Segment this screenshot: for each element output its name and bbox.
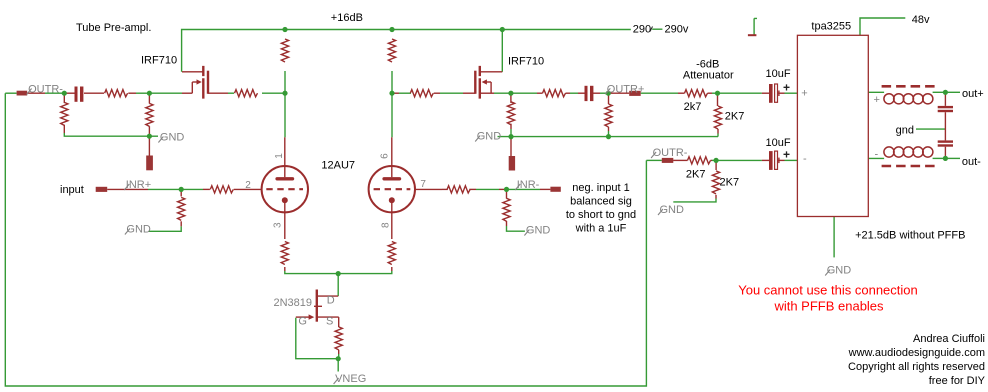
- svg-text:out+: out+: [962, 88, 984, 100]
- svg-text:IRF710: IRF710: [508, 56, 544, 68]
- svg-text:tpa3255: tpa3255: [811, 21, 851, 33]
- svg-text:+: +: [801, 87, 807, 99]
- svg-text:12AU7: 12AU7: [321, 160, 355, 172]
- svg-text:OUTR-: OUTR-: [653, 147, 688, 159]
- svg-text:out-: out-: [962, 156, 981, 168]
- svg-text:+21.5dB without PFFB: +21.5dB without PFFB: [855, 230, 965, 242]
- svg-text:IRF710: IRF710: [141, 55, 177, 67]
- svg-text:neg. input 1: neg. input 1: [572, 182, 630, 194]
- svg-text:2k7: 2k7: [684, 101, 702, 113]
- svg-text:8: 8: [381, 222, 392, 228]
- svg-text:GND: GND: [126, 224, 150, 236]
- svg-text:You cannot use this connection: You cannot use this connection: [738, 283, 918, 298]
- svg-text:GND: GND: [477, 131, 502, 143]
- svg-text:7: 7: [420, 179, 426, 190]
- svg-text:-: -: [803, 153, 807, 165]
- svg-text:290: 290: [633, 24, 651, 36]
- svg-text:with PFFB enables: with PFFB enables: [773, 299, 884, 314]
- svg-text:-6dB: -6dB: [696, 58, 719, 70]
- svg-text:290v: 290v: [665, 24, 689, 36]
- svg-text:2K7: 2K7: [686, 169, 706, 181]
- svg-text:3: 3: [273, 222, 284, 228]
- svg-text:OUTR-: OUTR-: [28, 84, 63, 96]
- svg-text:to short to gnd: to short to gnd: [566, 209, 636, 221]
- svg-text:+: +: [783, 148, 790, 162]
- svg-text:48v: 48v: [912, 14, 930, 26]
- svg-text:GND: GND: [160, 132, 185, 144]
- svg-text:www.audiodesignguide.com: www.audiodesignguide.com: [848, 347, 985, 359]
- svg-text:Andrea Ciuffoli: Andrea Ciuffoli: [913, 333, 985, 345]
- svg-text:OUTR+: OUTR+: [607, 83, 645, 95]
- svg-text:INR-: INR-: [517, 179, 540, 191]
- svg-text:Attenuator: Attenuator: [683, 70, 734, 82]
- svg-text:2K7: 2K7: [720, 177, 740, 189]
- svg-text:GND: GND: [526, 225, 551, 237]
- svg-text:2: 2: [245, 180, 251, 191]
- svg-text:input: input: [60, 184, 84, 196]
- svg-text:S: S: [326, 316, 333, 328]
- svg-text:balanced sig: balanced sig: [570, 196, 632, 208]
- svg-text:2N3819: 2N3819: [274, 297, 313, 309]
- svg-text:GND: GND: [827, 265, 852, 277]
- svg-text:6: 6: [379, 153, 390, 159]
- svg-text:Copyright all rights reserved: Copyright all rights reserved: [848, 361, 985, 373]
- svg-text:+: +: [874, 94, 880, 106]
- svg-text:INR+: INR+: [126, 179, 151, 191]
- svg-text:D: D: [327, 295, 335, 307]
- svg-text:G: G: [298, 316, 307, 328]
- svg-text:1: 1: [274, 153, 285, 159]
- svg-text:gnd: gnd: [896, 124, 914, 136]
- svg-text:+16dB: +16dB: [331, 12, 363, 24]
- svg-text:-: -: [875, 149, 879, 161]
- svg-text:GND: GND: [660, 204, 685, 216]
- svg-text:+: +: [783, 81, 790, 95]
- svg-text:with a 1uF: with a 1uF: [575, 223, 627, 235]
- svg-text:10uF: 10uF: [766, 68, 791, 80]
- svg-text:VNEG: VNEG: [335, 373, 366, 385]
- svg-text:2K7: 2K7: [725, 111, 745, 123]
- svg-text:free for DIY: free for DIY: [929, 375, 986, 387]
- svg-text:Tube Pre-ampl.: Tube Pre-ampl.: [76, 22, 151, 34]
